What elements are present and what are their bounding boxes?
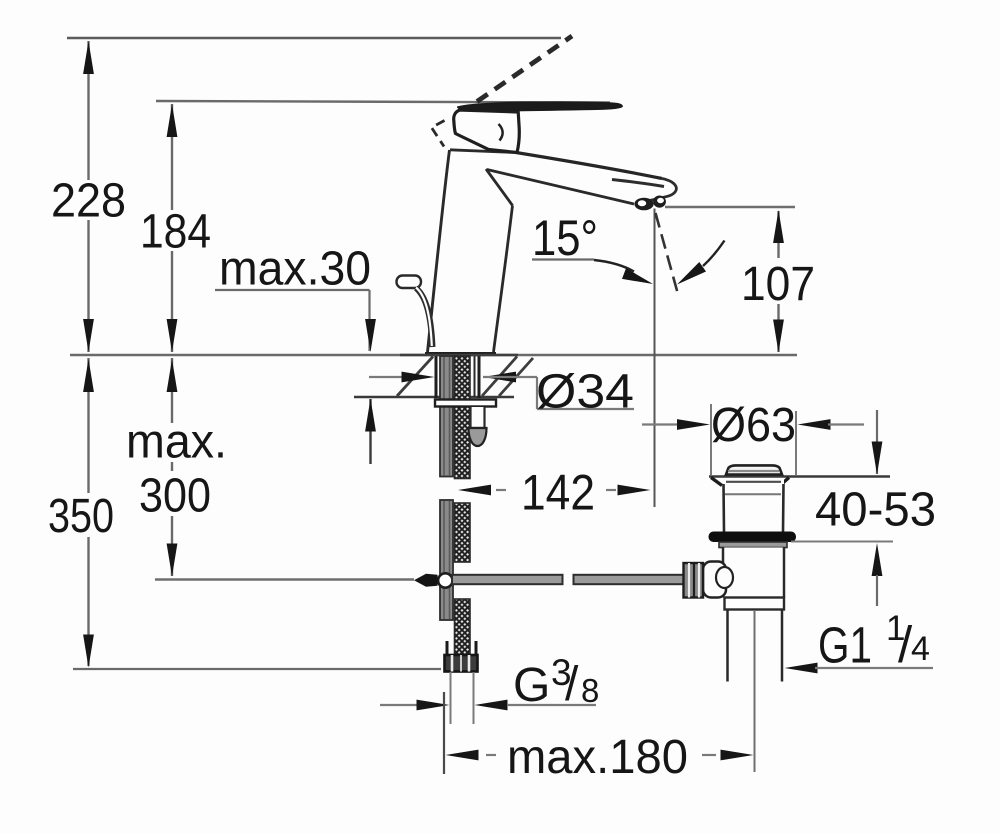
max30 arrows xyxy=(365,319,376,352)
svg-text:Ø34: Ø34 xyxy=(536,366,634,419)
wire: 107 top reference line xyxy=(665,206,795,208)
svg-text:max.: max. xyxy=(126,416,227,469)
pop-up horizontal rod segment 1 xyxy=(452,575,563,584)
shank top dark line xyxy=(430,353,485,356)
basin surface line at drain xyxy=(709,475,890,478)
svg-text:/: / xyxy=(565,658,579,711)
drain side outlet bump xyxy=(703,562,726,598)
faucet body right edge xyxy=(494,206,513,353)
pop-up knob pill xyxy=(397,276,422,289)
svg-text:300: 300 xyxy=(139,470,211,523)
dim max180 extension line left xyxy=(443,692,445,774)
drain tailpipe walls xyxy=(726,610,729,682)
dim 40-53 vertical and arrows xyxy=(876,410,878,474)
drain plug cap disc xyxy=(726,465,782,474)
basin hole bevel left xyxy=(711,478,722,486)
faucet body left edge xyxy=(428,150,450,352)
node: max30 leader and verticals xyxy=(215,289,370,291)
drain neck inner line xyxy=(725,493,781,495)
svg-text:142: 142 xyxy=(521,465,595,521)
shank outer walls between counter lines xyxy=(435,354,438,398)
svg-text:350: 350 xyxy=(48,490,114,543)
faucet base line on counter xyxy=(425,352,496,355)
aerator outlet ellipses xyxy=(634,198,653,211)
drain rubber gasket (black band) xyxy=(709,532,797,543)
pop-up rod clevis (left pointed end) xyxy=(414,574,438,587)
node: 15 degree outlet vertical line xyxy=(654,209,656,508)
drain gray band under gasket xyxy=(719,542,787,548)
drain body cylinder xyxy=(723,548,784,598)
node: dimension line 107 vertical xyxy=(777,211,779,352)
107 arrows xyxy=(773,210,784,243)
mounting stud with domed cap xyxy=(471,407,485,428)
hose end collar xyxy=(446,641,449,655)
handle swing dashed arc xyxy=(432,121,445,147)
node: dimension line 228/350 vertical xyxy=(87,41,89,352)
handle raised position dashed lever xyxy=(477,36,572,102)
pop-up rod column (gray bar) xyxy=(440,356,453,477)
drain neck walls xyxy=(722,484,725,532)
dim 40-53 extension lines xyxy=(791,541,893,543)
svg-text:G: G xyxy=(513,659,550,712)
wire: top reference line 228 xyxy=(67,37,561,39)
15 degree dashed slant line xyxy=(656,213,679,296)
faucet body fill xyxy=(428,150,675,352)
dim Ø34 arrows and leader xyxy=(369,376,404,378)
svg-text:Ø63: Ø63 xyxy=(711,399,796,452)
svg-text:max.30: max.30 xyxy=(219,243,371,296)
svg-text:40-53: 40-53 xyxy=(815,484,936,537)
15 degree underline xyxy=(532,258,594,260)
flexible hose column (braided) xyxy=(455,356,471,479)
svg-text:8: 8 xyxy=(581,672,599,709)
vertical dim arrows 184/max300 xyxy=(167,104,178,137)
dim max180 arrows xyxy=(446,750,479,761)
faucet spout top edge xyxy=(516,153,662,179)
svg-text:4: 4 xyxy=(911,630,930,668)
drain tailpipe centerline xyxy=(754,611,756,772)
counter hatch left xyxy=(397,357,433,397)
svg-text:G1: G1 xyxy=(818,617,872,674)
svg-text:107: 107 xyxy=(741,258,815,311)
wire: max300 reference / pop-up rod line left xyxy=(155,578,414,580)
white boxes behind labels xyxy=(47,180,131,220)
faucet neck top line xyxy=(450,150,517,153)
spout tip inner chamfer line xyxy=(612,180,664,187)
svg-text:228: 228 xyxy=(51,175,126,228)
G3/8 hose nut xyxy=(445,655,478,672)
dim 142 arrows xyxy=(458,485,491,496)
wire: 350 bottom reference line xyxy=(73,668,441,670)
faucet spout inner face xyxy=(486,169,513,206)
handle pivot body xyxy=(454,110,520,153)
wire: reference line 184 xyxy=(156,101,610,103)
faucet spout tip xyxy=(637,179,676,204)
pop-up knob rod curve xyxy=(416,288,433,347)
faucet spout underside xyxy=(487,170,634,205)
svg-text:184: 184 xyxy=(140,206,211,259)
G3/8 extension lines below nut xyxy=(450,672,452,724)
pop-up rod ball joint xyxy=(438,573,452,587)
drain hole rim inner line xyxy=(726,481,781,483)
counter hatch right 2 xyxy=(499,358,533,396)
dim G3/8 arrows xyxy=(380,704,417,706)
dim Ø63 arrows and extension lines xyxy=(710,404,712,475)
drain bottom rim xyxy=(725,598,785,610)
basin hole bevel right xyxy=(780,478,789,486)
15 degree right arc with arrowhead xyxy=(703,241,725,267)
mounting washer under counter xyxy=(435,400,496,407)
15 degree left arc with arrowhead xyxy=(594,260,634,272)
counter hatch right 1 xyxy=(482,357,517,397)
node: dimension line 184/max300 vertical xyxy=(171,104,173,352)
counter line darker segment near shank xyxy=(400,354,518,357)
handle pivot bracket mark xyxy=(499,124,503,141)
drain neck fill xyxy=(723,478,784,533)
drain side outlet inner circle xyxy=(716,567,733,588)
dim G1 1/4 leader xyxy=(785,663,818,674)
pop-up horizontal rod segment 2 xyxy=(574,575,684,584)
svg-text:15°: 15° xyxy=(532,210,598,266)
wire: countertop bottom line xyxy=(354,396,514,399)
drain rod coupling knurled nut xyxy=(684,563,704,598)
svg-text:max.180: max.180 xyxy=(507,731,688,784)
vertical dim arrows 228/350 xyxy=(83,41,94,74)
handle lever blade xyxy=(457,102,622,111)
wire: countertop top line xyxy=(70,354,797,356)
